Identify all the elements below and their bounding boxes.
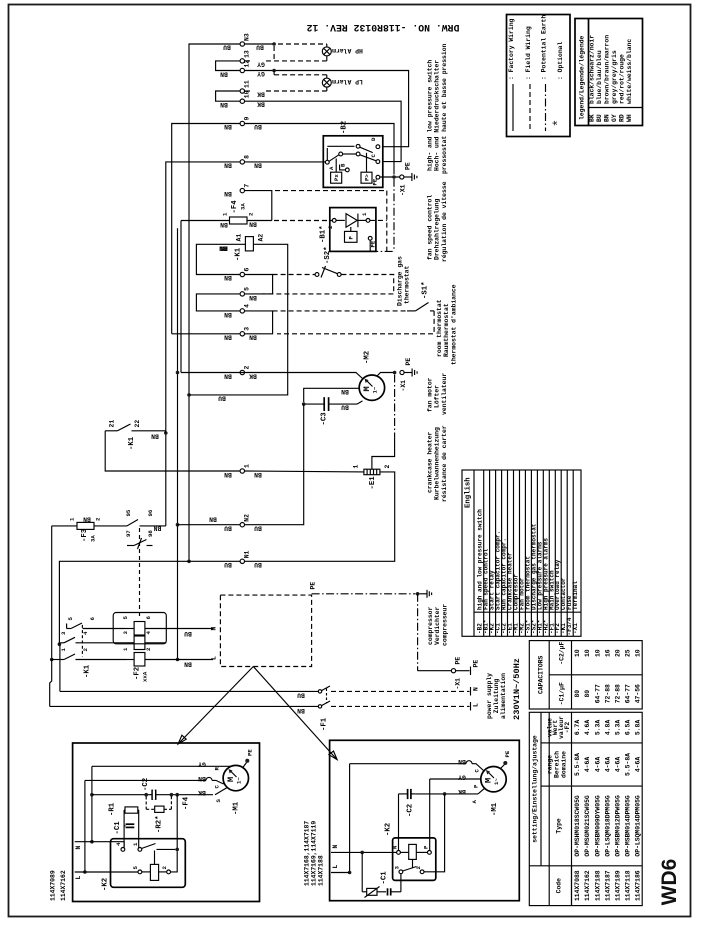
svg-text:5: 5 (244, 287, 251, 291)
wire row 7 to fuse F4 (245, 191, 272, 221)
svg-text:BU: BU (254, 525, 262, 532)
svg-text:WH: WH (626, 114, 633, 122)
svg-text:fan speed control: fan speed control (427, 195, 434, 260)
svg-text:1: 1 (361, 212, 368, 216)
ground arrow at compressor PE (419, 590, 431, 598)
svg-text:64-77: 64-77 (594, 684, 601, 703)
contact F2 97-98 (125, 530, 154, 549)
wire L row left inset (75, 872, 138, 880)
svg-text:4: 4 (244, 304, 251, 308)
svg-text:3A: 3A (240, 203, 247, 210)
svg-text:4-6A: 4-6A (615, 757, 622, 773)
junction C3 node (302, 402, 306, 406)
svg-text:crankcase heater: crankcase heater (427, 431, 434, 493)
wire A drop to contact 2 (424, 794, 445, 872)
start relay K2 left inset (102, 839, 186, 891)
svg-text:-X1: -X1 (400, 184, 407, 196)
svg-text:blue/blau/bleu: blue/blau/bleu (596, 50, 603, 104)
wire fuse F4 to row 2 (180, 221, 182, 373)
svg-text:1: 1 (353, 465, 360, 469)
wire B1 PE to earth line (369, 240, 371, 251)
crankcase heater E1 (353, 465, 392, 490)
svg-text:range: range (547, 755, 554, 774)
svg-text:-B2: -B2 (341, 121, 349, 134)
wire A row right inset (415, 788, 484, 803)
svg-text:BK: BK (249, 372, 257, 379)
svg-text:N2: N2 (244, 514, 251, 522)
svg-text:-M2: -M2 (364, 351, 372, 364)
junction N bus to N1 row (187, 560, 191, 564)
svg-text:5: 5 (67, 617, 74, 621)
wire bracket rows 6-5 (245, 275, 273, 294)
svg-text:96: 96 (147, 509, 154, 516)
svg-text:114X7169,114X7119: 114X7169,114X7119 (311, 821, 318, 886)
potential earth compressor (312, 592, 452, 671)
wire terminal 8 bus (166, 162, 240, 522)
svg-text:S: S (215, 799, 222, 803)
wire K1 coil A2 to N bus (189, 244, 288, 395)
svg-text:red/rot/rouge: red/rot/rouge (619, 54, 626, 104)
svg-text:English: English (465, 477, 473, 508)
contactor K1 main contacts (52, 617, 126, 679)
arrow to right inset (253, 667, 337, 760)
svg-text:9: 9 (244, 117, 251, 121)
svg-text:3: 3 (394, 866, 401, 870)
svg-text:2: 2 (244, 366, 251, 370)
svg-text:GY: GY (198, 760, 206, 767)
svg-text:64-77: 64-77 (625, 684, 632, 703)
svg-text:-C1: -C1 (114, 821, 122, 835)
svg-text:230V1N~/50Hz: 230V1N~/50Hz (512, 658, 522, 720)
junction L bus L row (176, 658, 180, 662)
svg-text:: Factory Wiring: : Factory Wiring (508, 18, 515, 80)
svg-text:P: P (423, 845, 430, 849)
svg-text:-K1: -K1 (128, 436, 136, 450)
svg-text:-C2/µF: -C2/µF (559, 642, 566, 665)
svg-text:thermostat d'ambiance: thermostat d'ambiance (450, 284, 457, 365)
lamp HP Alarm (322, 47, 363, 56)
svg-text:25: 25 (625, 649, 632, 657)
svg-text:BK: BK (257, 90, 265, 97)
svg-text:alimentation: alimentation (500, 673, 507, 719)
wire S row left inset (92, 788, 227, 803)
svg-text:brown/braun/marron: brown/braun/marron (604, 35, 611, 104)
junction L bus N2 (176, 523, 180, 527)
wire dashed supply L (331, 705, 470, 707)
svg-text:OP-LSQM014DPM05G: OP-LSQM014DPM05G (635, 795, 642, 857)
svg-text:5: 5 (122, 616, 129, 620)
wire row N3 dashed to HP lamp (245, 42, 327, 47)
wire bracket rows 5-4 left (196, 294, 240, 311)
svg-text:-S2*: -S2* (324, 246, 332, 264)
svg-text:114X7168,114X7187: 114X7168,114X7187 (304, 821, 311, 886)
svg-text:-X1: -X1 (455, 678, 462, 690)
contact F2 95-96 (125, 509, 166, 526)
wire dashed B1 output (370, 219, 387, 221)
wire L bus x177 (177, 228, 179, 659)
svg-text:résistance de carter: résistance de carter (441, 425, 448, 502)
X1 PE terminal compressor (451, 657, 479, 690)
svg-text:-C2: -C2 (407, 804, 415, 817)
wire E1 sheath jog (372, 437, 395, 469)
svg-text:7: 7 (244, 184, 251, 188)
svg-text:N: N (211, 627, 218, 631)
note crankcase heater description (427, 425, 448, 502)
wire N row left inset (75, 842, 124, 850)
svg-text:HP Alarm: HP Alarm (332, 47, 363, 54)
wire left bracket rows 11-10 (216, 91, 241, 101)
switch S1 room thermostat (273, 281, 435, 310)
PE stub M1 right (500, 750, 511, 769)
svg-text:GY: GY (611, 114, 618, 122)
svg-text:OP-LSQM018DPM05G: OP-LSQM018DPM05G (604, 795, 611, 857)
setting table (529, 712, 642, 905)
svg-text:CAPACITORS: CAPACITORS (538, 655, 545, 694)
svg-text:-S1*: -S1* (422, 281, 430, 299)
K2 drop from S row (175, 793, 179, 797)
svg-text:C: C (370, 154, 377, 158)
svg-text:10: 10 (584, 649, 591, 657)
svg-text:ventilateur: ventilateur (441, 373, 448, 415)
pressure switch B2 (323, 121, 383, 188)
svg-text:M: M (484, 778, 494, 783)
terminal strip X1 circles (240, 42, 244, 564)
svg-text:4: 4 (82, 631, 89, 635)
svg-text:Löfter: Löfter (434, 385, 441, 408)
svg-text:C: C (214, 785, 221, 789)
mechanical link F2 (139, 528, 141, 616)
svg-text:grey/grey/gris: grey/grey/gris (611, 50, 618, 104)
note fan motor description (427, 373, 448, 415)
svg-text:DRW. NO. -118R0132 REV. 12: DRW. NO. -118R0132 REV. 12 (306, 22, 459, 33)
svg-text:1: 1 (60, 648, 67, 652)
wire row 2 to fan motor (181, 373, 363, 379)
svg-text:-C2: -C2 (142, 778, 150, 791)
svg-text:compressor: compressor (427, 606, 434, 645)
svg-text:GY: GY (257, 60, 265, 67)
wire dashed fuse to B1 input (274, 220, 332, 222)
svg-text:5.3A: 5.3A (615, 720, 622, 736)
svg-text:2: 2 (248, 212, 255, 216)
rails for R1 C1 (123, 810, 125, 848)
svg-text:5.5-8A: 5.5-8A (574, 753, 581, 776)
svg-text:114X7162: 114X7162 (60, 870, 67, 901)
wire row 10 to B2 contact C (245, 101, 402, 161)
svg-text:BN: BN (220, 101, 228, 108)
svg-text:Px: Px (333, 174, 340, 181)
svg-text:PE: PE (247, 749, 254, 756)
wire HP lamp to row 13 (245, 46, 327, 61)
svg-text:A2: A2 (258, 234, 265, 242)
potential earth line B2 to M2 (393, 179, 395, 252)
svg-text:N3: N3 (244, 33, 251, 41)
svg-text:Terminal: Terminal (572, 581, 579, 610)
svg-text:BN: BN (224, 190, 232, 197)
svg-text:-F2: -F2 (564, 722, 571, 734)
svg-text:Hoch- und Niederdruckschalter: Hoch- und Niederdruckschalter (434, 60, 441, 171)
svg-text:PE: PE (455, 657, 462, 665)
compressor supply dashed box (211, 582, 317, 667)
svg-text:-K1: -K1 (84, 664, 92, 678)
wire C row right inset (350, 758, 484, 773)
wire S1 return to row 3 (277, 311, 434, 334)
wire C drop to L right inset (349, 764, 351, 873)
svg-text:4: 4 (145, 631, 152, 635)
svg-text:1: 1 (132, 842, 139, 846)
svg-text:pressostat haute et basse pres: pressostat haute et basse pression (441, 43, 448, 174)
svg-text:BN: BN (249, 221, 257, 228)
wire bracket rows 4-3 right (245, 311, 273, 334)
wire N row right inset (331, 845, 397, 855)
svg-text:13: 13 (244, 50, 251, 58)
svg-text:PE: PE (405, 358, 412, 366)
English legend table (462, 470, 581, 636)
svg-text:-F4: -F4 (231, 200, 239, 214)
fan motor M2 (359, 351, 384, 401)
fuse F4 (181, 200, 272, 224)
wire row 12 tap to LP lamp (272, 69, 326, 79)
svg-text:C: C (474, 769, 481, 773)
wire M2 BN winding to node (304, 388, 360, 402)
svg-text:1: 1 (244, 464, 251, 468)
wire neutral bus N3-N1 (189, 44, 240, 561)
svg-text:L: L (75, 876, 82, 880)
svg-text:6: 6 (89, 617, 96, 621)
svg-text:3: 3 (60, 631, 67, 635)
svg-text:-X1: -X1 (572, 623, 579, 634)
svg-text:4-6A: 4-6A (604, 757, 611, 773)
junction A2 to N bus (187, 393, 191, 397)
svg-text:BN: BN (224, 334, 232, 341)
svg-text:6: 6 (145, 616, 152, 620)
note compressor description (427, 604, 448, 646)
svg-text:-F2: -F2 (134, 667, 142, 680)
svg-text:P: P (348, 236, 355, 240)
svg-text:2: 2 (95, 517, 102, 521)
svg-text:room thermostat: room thermostat (436, 299, 443, 357)
note pressure switch description (427, 43, 448, 174)
compressor motor M1 left (223, 765, 248, 815)
supply end ticks L N (471, 687, 480, 711)
svg-text:10: 10 (594, 649, 601, 657)
svg-text:: Field Wiring: : Field Wiring (525, 26, 532, 80)
svg-text:BK: BK (458, 788, 466, 795)
wire B2 PE to X1 PE (380, 162, 412, 196)
svg-text:BN: BN (224, 311, 232, 318)
wire N drop to BU run (59, 644, 61, 691)
svg-text:setting/Einstellung/ajustage: setting/Einstellung/ajustage (532, 735, 539, 843)
svg-text:N: N (332, 845, 339, 849)
wire N2 row left to L bus (178, 524, 241, 526)
svg-text:PE: PE (504, 750, 511, 757)
svg-text:OP-MSGM021SCW05G: OP-MSGM021SCW05G (584, 795, 591, 857)
svg-text:N1: N1 (244, 550, 251, 558)
svg-text:80: 80 (584, 690, 591, 698)
svg-text:A: A (328, 166, 335, 170)
potential earth line M2 to E1 (394, 375, 396, 438)
overload relay F2 (113, 613, 213, 683)
svg-text:Verdichter: Verdichter (434, 606, 441, 645)
svg-text:Drehzahlregelung: Drehzahlregelung (434, 198, 441, 260)
wire S2 return to row 5 (262, 275, 394, 294)
wire C drop to L (84, 780, 86, 872)
svg-text:-F3: -F3 (81, 528, 89, 542)
svg-text:-K2: -K2 (385, 823, 393, 836)
svg-text:BN: BN (604, 114, 611, 122)
svg-text:114X7162: 114X7162 (584, 870, 591, 901)
svg-text:-C1/µF: -C1/µF (559, 682, 566, 705)
wire P row right inset (430, 773, 481, 788)
svg-text:GY: GY (458, 773, 466, 780)
junction L bus row2 (176, 371, 180, 375)
svg-text:PE: PE (372, 178, 379, 185)
svg-text:5.5-8A: 5.5-8A (625, 753, 632, 776)
svg-text:10: 10 (574, 649, 581, 657)
wire R row left inset (92, 765, 231, 767)
svg-text:B: B (340, 163, 347, 167)
power supply labels (486, 658, 522, 720)
svg-text:1~: 1~ (236, 777, 243, 784)
right inset code labels (304, 821, 325, 886)
svg-text:6.5A: 6.5A (625, 720, 632, 736)
svg-text:114X7088: 114X7088 (574, 870, 581, 901)
svg-text:114X7188: 114X7188 (594, 870, 601, 901)
svg-text:114X7188: 114X7188 (318, 855, 325, 886)
svg-text:114X7189: 114X7189 (615, 870, 622, 901)
start branch PTC C1 right inset (362, 852, 401, 897)
svg-text:BU: BU (184, 630, 192, 637)
wire node to terminal N2 (245, 404, 304, 525)
svg-text:-M1: -M1 (233, 801, 241, 815)
wire C2 to K2 N (398, 794, 400, 851)
resistor R2 dashed branch (144, 793, 173, 833)
svg-text:N: N (473, 687, 480, 691)
svg-text:BN: BN (297, 707, 305, 714)
svg-text:-K1: -K1 (235, 247, 243, 261)
note discharge gas thermostat description (397, 256, 411, 306)
svg-text:BN: BN (209, 515, 217, 522)
svg-text:-E1: -E1 (369, 476, 377, 490)
main switch F1 (318, 686, 330, 731)
svg-text:-R1: -R1 (109, 802, 117, 816)
wire 5-6 left up stub (66, 624, 68, 629)
svg-text:-C3: -C3 (321, 412, 329, 426)
svg-text:5.8A: 5.8A (635, 720, 642, 736)
svg-text:72-88: 72-88 (604, 684, 611, 703)
svg-text:5: 5 (132, 866, 139, 870)
svg-text:domaine: domaine (561, 751, 568, 778)
svg-text:OP-MSBM012DPW05G: OP-MSBM012DPW05G (615, 795, 622, 857)
svg-text:Code: Code (556, 878, 563, 894)
wire P drop to K2 (429, 779, 431, 851)
lamp LP Alarm (322, 78, 363, 87)
X1 PE terminal at M2 (400, 358, 412, 392)
svg-text:4.8A: 4.8A (604, 720, 611, 736)
wire row 3 to bus 9 (172, 333, 240, 335)
svg-text:PE: PE (473, 660, 480, 668)
svg-text:BN: BN (458, 758, 466, 765)
wire colour labels (83, 43, 349, 714)
svg-text:compresseur: compresseur (441, 604, 448, 646)
svg-text:Bereich: Bereich (554, 751, 561, 778)
svg-text:BN: BN (220, 70, 228, 77)
junction bus8 contact 22 (164, 431, 168, 435)
wire row 11 dashed to LP lamp (245, 87, 327, 91)
svg-text:LP Alarm: LP Alarm (332, 78, 363, 85)
svg-text:16: 16 (604, 649, 611, 657)
svg-text:2: 2 (384, 465, 391, 469)
wire N1 row left (59, 561, 240, 644)
svg-text:47-56: 47-56 (635, 684, 642, 703)
wire BU run to F1 (60, 690, 318, 692)
legend box wire colours (575, 19, 643, 126)
svg-text:L: L (211, 656, 218, 660)
svg-text:Raumthermostat: Raumthermostat (443, 303, 450, 357)
wire L drop to BN run (50, 660, 52, 707)
note room thermostat description (436, 284, 457, 365)
svg-text:6.7A: 6.7A (574, 720, 581, 736)
svg-text:22: 22 (134, 420, 141, 428)
svg-text:BN: BN (249, 334, 257, 341)
resistor R1 (109, 802, 138, 816)
svg-text:BN: BN (83, 515, 91, 522)
svg-text:114X7187: 114X7187 (604, 870, 611, 901)
svg-text:1~: 1~ (372, 386, 379, 393)
svg-text:3: 3 (244, 327, 251, 331)
svg-text:BU: BU (224, 561, 232, 568)
svg-text:BU: BU (218, 395, 226, 402)
svg-text:BN: BN (219, 244, 227, 251)
wire L stub right inset (331, 865, 350, 873)
terminal number labels (244, 33, 251, 558)
svg-text:Discharge gas: Discharge gas (397, 256, 404, 306)
wire terminal 1 to E1 (245, 470, 364, 473)
svg-text:fan motor: fan motor (427, 377, 434, 412)
svg-text:BU: BU (254, 561, 262, 568)
PE stub M1 left (243, 749, 254, 768)
svg-text:R: R (214, 767, 221, 771)
wire dashed supply N (331, 690, 470, 692)
svg-text:4-6A: 4-6A (635, 757, 642, 773)
svg-text:A1: A1 (236, 234, 243, 242)
fan speed control B1 (320, 208, 377, 252)
start relay K2 right inset (385, 823, 436, 881)
svg-text:: Optional: : Optional (557, 41, 564, 80)
svg-text:BU: BU (224, 525, 232, 532)
svg-text:BN: BN (184, 661, 192, 668)
svg-text:-C1: -C1 (381, 871, 389, 885)
svg-text:BN: BN (224, 471, 232, 478)
compressor motor M1 right (481, 767, 506, 817)
svg-text:PE: PE (310, 582, 317, 590)
wire BN run to F1 (50, 705, 318, 707)
svg-text:3: 3 (122, 631, 129, 635)
svg-text:2: 2 (327, 225, 334, 229)
capacitor C1 left inset (114, 821, 134, 835)
svg-text:power supply: power supply (486, 673, 493, 719)
svg-text:-F4: -F4 (183, 796, 191, 810)
capacitor C2 right inset (399, 789, 416, 817)
svg-text:P>: P> (364, 174, 371, 181)
svg-text:white/weiss/blanc: white/weiss/blanc (626, 39, 633, 104)
svg-text:11: 11 (244, 80, 251, 88)
svg-text:4: 4 (115, 842, 122, 846)
svg-text:BK: BK (589, 114, 596, 122)
wire terminal 9 bus (172, 124, 240, 334)
svg-text:N: N (75, 846, 82, 850)
svg-text:P: P (473, 784, 480, 788)
fuse F3 (52, 517, 127, 542)
